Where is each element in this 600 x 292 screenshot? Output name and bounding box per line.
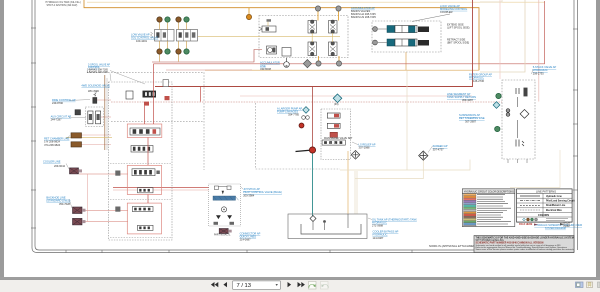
wire pink couplers y210.5 bbox=[82, 210, 128, 212]
svg-text:(BKT SPOOL SIDE): (BKT SPOOL SIDE) bbox=[447, 41, 469, 44]
tank inlet diamond bbox=[310, 216, 316, 222]
svg-text:LINE PATTERNS: LINE PATTERNS bbox=[536, 190, 556, 194]
relief valve small bbox=[282, 48, 291, 57]
page bottom shadow bbox=[0, 277, 600, 279]
toolbar first-page button bbox=[211, 282, 227, 287]
legend text lines bbox=[477, 195, 511, 224]
valve bank dashed separators bbox=[110, 164, 171, 238]
svg-text:4WD SOLENOID VALVE: 4WD SOLENOID VALVE bbox=[81, 84, 110, 88]
port ticks below filter box bbox=[508, 159, 527, 163]
coupler below pilot box bbox=[219, 229, 232, 234]
label joystick bbox=[243, 187, 282, 197]
svg-text:Pilot/Load Sensing Circuit: Pilot/Load Sensing Circuit bbox=[546, 199, 575, 202]
port diamond gray bbox=[303, 60, 311, 68]
svg-text:309-4287: 309-4287 bbox=[462, 98, 474, 102]
cartridge valve C4 bbox=[329, 42, 338, 56]
svg-text:126-2736: 126-2736 bbox=[473, 79, 485, 83]
sheet border left double line bbox=[32, 0, 39, 253]
brown valve A bbox=[71, 133, 82, 138]
svg-text:WD-4WD: WD-4WD bbox=[88, 89, 99, 93]
wire brown left column vertical bbox=[104, 75, 106, 150]
leader lines left labels bbox=[66, 69, 533, 220]
valve bank spool row3 bbox=[131, 146, 153, 153]
valve V1 two-spool bbox=[151, 30, 175, 42]
svg-text:COUPLER: COUPLER bbox=[440, 10, 453, 14]
svg-text:Some more of the Service phone: Some more of the Service phone number pr… bbox=[476, 248, 574, 251]
cartridge valve C1 bbox=[308, 20, 317, 33]
svg-text:307-2987: 307-2987 bbox=[465, 119, 477, 123]
wire red long y63.8 bbox=[154, 1, 545, 64]
box right filter unit bbox=[502, 80, 535, 159]
label backhoe bbox=[46, 195, 70, 205]
accumulator diamond bbox=[351, 151, 360, 160]
statusbar icon blue bbox=[576, 282, 584, 288]
wire pink long y101.5 bbox=[111, 101, 502, 103]
svg-text:STD/T-4 IGNITION (494 FLW): STD/T-4 IGNITION (494 FLW) bbox=[47, 5, 78, 7]
green port dots right bbox=[496, 93, 501, 98]
sheet border right double line bbox=[574, 0, 578, 253]
wire orange dot stem bbox=[248, 8, 250, 15]
valve bank pink manifold outline 1 bbox=[127, 124, 162, 234]
svg-text:(LIFT SPOOL SIDE): (LIFT SPOOL SIDE) bbox=[447, 26, 470, 29]
tank symbol bbox=[301, 224, 361, 234]
pump suction line black bbox=[296, 150, 313, 152]
wire red y70 bbox=[166, 69, 252, 71]
ride control valve row 2 bbox=[373, 39, 429, 46]
toolbar last-page button bbox=[298, 282, 305, 287]
statusbar icon partial bbox=[598, 282, 600, 288]
toolbar page field bbox=[233, 281, 281, 290]
coupler connector 3 bbox=[73, 218, 86, 225]
wire pink y96 bbox=[240, 95, 472, 97]
svg-text:374-208-9824: 374-208-9824 bbox=[44, 143, 61, 147]
svg-text:2-BANKS 208-7185: 2-BANKS 208-7185 bbox=[87, 71, 109, 74]
svg-text:249-8790: 249-8790 bbox=[52, 101, 64, 105]
box pilot controller bbox=[209, 184, 241, 226]
valve bank spool row6 bbox=[132, 207, 153, 212]
svg-text:PRINT: PRINT bbox=[564, 226, 571, 228]
wire stems valve group bbox=[160, 23, 187, 62]
svg-text:COLORS: COLORS bbox=[538, 213, 549, 217]
toolbar next-view icon bbox=[321, 281, 329, 289]
svg-text:7 / 13: 7 / 13 bbox=[237, 283, 252, 289]
label eccentricity bbox=[351, 6, 376, 19]
label 2-spool bbox=[87, 63, 111, 74]
junction red dot big bbox=[309, 147, 315, 153]
wire tan left column y137 bbox=[66, 136, 112, 138]
4wd solenoid valve bbox=[93, 93, 97, 104]
port dots gray top box bbox=[315, 6, 341, 66]
leader line ride control bbox=[412, 14, 450, 22]
box pilot manifold top-center bbox=[259, 16, 348, 58]
statusbar icon bookmark bbox=[587, 282, 593, 288]
label breather bbox=[433, 144, 448, 151]
legend 2 footnote bbox=[519, 223, 583, 230]
wire tan loop 2 bbox=[480, 0, 502, 2]
label main relief bbox=[324, 137, 353, 145]
cartridge pair in small box bbox=[88, 111, 101, 124]
label coupler below bbox=[214, 231, 261, 241]
svg-text:354-7785: 354-7785 bbox=[288, 113, 300, 117]
border tick marks bbox=[31, 28, 578, 253]
legend 2 symbol rows bbox=[517, 218, 573, 222]
wire pink vertical coupler bus bbox=[87, 174, 89, 222]
filter diamond no3 bbox=[333, 94, 342, 103]
svg-text:208-2735: 208-2735 bbox=[533, 71, 545, 75]
solenoid valve left bbox=[75, 110, 81, 115]
wire tan right loop bbox=[480, 0, 525, 72]
ride control valve row 1 bbox=[373, 26, 429, 33]
accumulator circle bbox=[284, 58, 290, 67]
right filter unit internals bbox=[506, 88, 529, 147]
wire pink couplers y174 bbox=[79, 173, 128, 175]
wire gray dashed signal lines bbox=[87, 72, 340, 170]
valve bank spool row5 bbox=[138, 188, 154, 193]
port dot orange top bbox=[246, 14, 251, 19]
svg-text:200-3984: 200-3984 bbox=[243, 193, 255, 197]
brown valve B bbox=[71, 142, 82, 147]
label filter unit bbox=[469, 73, 492, 83]
cartridge valve C3 bbox=[308, 42, 317, 56]
label oil tank bbox=[372, 217, 417, 240]
tiny gauge symbols bbox=[302, 116, 310, 120]
wire orange cartridge stems bbox=[318, 11, 339, 61]
label ls relief bbox=[359, 143, 376, 150]
wire dark red vertical x312.5 bbox=[312, 87, 314, 150]
valve bank side stub row6 bbox=[115, 207, 120, 212]
wire red pilot box feed bbox=[113, 187, 209, 189]
wire orange supply box top bbox=[84, 0, 479, 70]
pump assembly valves bbox=[322, 113, 345, 145]
junction red dot small bbox=[299, 123, 304, 128]
wire tan box C internals bbox=[198, 22, 340, 42]
svg-text:HYDRAULIC OIL TANK (34L FILL): HYDRAULIC OIL TANK (34L FILL) bbox=[46, 1, 81, 4]
label ret circuit bbox=[44, 136, 70, 146]
label 4wd solenoid bbox=[81, 84, 110, 93]
label extend side bbox=[447, 24, 470, 45]
svg-text:(#3): (#3) bbox=[334, 103, 339, 106]
label ride control bbox=[440, 4, 468, 14]
port block bank top bbox=[163, 80, 169, 87]
label 5 stack bbox=[533, 65, 557, 75]
svg-text:FOLD HERE: FOLD HERE bbox=[519, 224, 533, 226]
valve bank red risers bbox=[145, 64, 201, 203]
toolbar background bbox=[0, 280, 600, 292]
cartridge valve C2 bbox=[329, 20, 338, 33]
valve bank spool row7 bbox=[138, 225, 154, 230]
wire tan pilot line y68.5 bbox=[205, 52, 479, 70]
label larger pump bbox=[277, 106, 302, 116]
wire pink vertical x500 bbox=[499, 0, 501, 79]
svg-text:244-7287: 244-7287 bbox=[51, 118, 63, 122]
box main control valve bank bbox=[109, 82, 173, 240]
filter diamond small bbox=[303, 107, 310, 114]
wire teal tank return x312 bbox=[312, 150, 314, 216]
svg-text:Electrical Wire: Electrical Wire bbox=[546, 209, 563, 212]
reducing valve 2 with knob bbox=[267, 46, 277, 54]
wire pink pilot box feed bbox=[113, 189, 209, 191]
wire gray left column vertical bbox=[106, 78, 108, 150]
tank internal stems bbox=[313, 214, 348, 230]
suction strainer diamond bbox=[419, 151, 428, 160]
valve V2 two-spool bbox=[177, 30, 198, 42]
wire dark red main y86.5 bbox=[155, 0, 473, 87]
svg-text:NORD-IS (APPSKNAL ETTACHMENT): NORD-IS (APPSKNAL ETTACHMENT) bbox=[429, 244, 478, 248]
svg-text:350-7628: 350-7628 bbox=[59, 202, 71, 206]
wire orange tank feed x348 bbox=[347, 151, 349, 214]
toolbar next button bbox=[288, 282, 292, 287]
coupler connector 1 bbox=[70, 168, 83, 174]
box 4wd solenoid pair bbox=[85, 107, 103, 127]
toolbar prev-view icon bbox=[308, 281, 316, 289]
valve bank spool row2 bbox=[130, 128, 160, 135]
svg-text:3190: 3190 bbox=[330, 142, 336, 145]
label filter right bbox=[459, 113, 485, 123]
valve bank side stub row4 bbox=[115, 171, 120, 176]
svg-text:MAIN RELIEF VALVE SET: MAIN RELIEF VALVE SET bbox=[324, 137, 353, 140]
right side filter diamond teal bbox=[493, 102, 500, 109]
pilot controller internals bbox=[213, 186, 239, 225]
wire pink left column stubs bbox=[82, 100, 112, 145]
wire tan inner line bbox=[87, 1, 545, 3]
tank breather dot bbox=[323, 220, 326, 223]
svg-text:214-0687: 214-0687 bbox=[240, 238, 252, 242]
label ls line right bbox=[447, 92, 476, 102]
svg-text:209-6044: 209-6044 bbox=[54, 164, 66, 168]
svg-text:THIS SCHEMATIC IS FOR THE 420D: THIS SCHEMATIC IS FOR THE 420D 430D 42SE… bbox=[476, 236, 574, 239]
svg-text:114-0487: 114-0487 bbox=[373, 236, 384, 240]
label accumulator center bbox=[260, 61, 280, 71]
valve bank spool row4 bbox=[132, 169, 160, 176]
valve bank spool row1 solenoid bbox=[126, 91, 170, 106]
svg-text:Hydraulic Line: Hydraulic Line bbox=[546, 196, 563, 198]
box ride control top-right bbox=[372, 21, 441, 52]
svg-text:PART NO/ACTL: PART NO/ACTL bbox=[214, 234, 231, 237]
wire pink couplers y221.5 bbox=[82, 221, 128, 223]
wire tan suction loop bbox=[340, 70, 470, 214]
legend color rows bbox=[464, 194, 477, 227]
port dots valve group (brown/green) bbox=[157, 17, 189, 54]
svg-text:307-4737: 307-4737 bbox=[433, 147, 445, 151]
svg-text:Drain/Return Line: Drain/Return Line bbox=[546, 204, 566, 207]
svg-text:BANKS HS 208-7235: BANKS HS 208-7235 bbox=[351, 15, 376, 19]
label ride ctrl left bbox=[52, 98, 76, 105]
coupler connector 2 bbox=[73, 207, 86, 214]
sheet border bottom double line bbox=[37, 250, 574, 253]
label valve V1 blue bbox=[131, 33, 158, 43]
box tank assembly bbox=[288, 214, 367, 239]
svg-text:UW-8008: UW-8008 bbox=[260, 67, 271, 71]
box main pump bbox=[321, 109, 351, 160]
label cooler bbox=[43, 160, 66, 168]
wire pink vertical x538.8 bbox=[538, 0, 540, 102]
svg-text:HYDRAULIC SCHEMATIC - (PDF LIN: HYDRAULIC SCHEMATIC - (PDF LINK) VIEW bbox=[534, 224, 583, 227]
leader 2-spool label bbox=[110, 71, 145, 85]
reducing valve left of box bbox=[259, 19, 276, 32]
svg-text:271-0988: 271-0988 bbox=[372, 224, 384, 228]
svg-text:100-4401: 100-4401 bbox=[136, 39, 148, 43]
wire red branch y62 valve group bbox=[152, 50, 262, 63]
svg-text:COOLER LINE: COOLER LINE bbox=[43, 160, 61, 164]
label aux left bbox=[51, 115, 72, 122]
svg-text:HYDRAULIC CIRCUIT COLOR DESCRI: HYDRAULIC CIRCUIT COLOR DESCRIPTIONS bbox=[464, 190, 514, 193]
svg-text:307-2988: 307-2988 bbox=[359, 146, 371, 150]
